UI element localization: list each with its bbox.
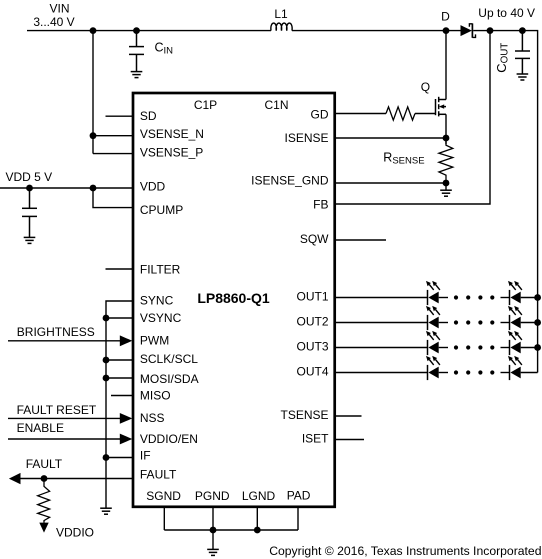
- LED string 2 first: [426, 306, 440, 330]
- wire CPUMP branch: [93, 188, 133, 208]
- svg-text:Up to 40 V: Up to 40 V: [478, 6, 535, 20]
- transistor Q NMOS: [436, 97, 447, 117]
- wire VSYNC: [106, 317, 133, 319]
- svg-text:Q: Q: [421, 80, 430, 94]
- ground RSENSE: [440, 190, 452, 196]
- output arrow FAULT: [9, 473, 21, 484]
- wire ground rail: [164, 529, 298, 531]
- wire OUT2: [336, 322, 428, 324]
- wire VDD rail: [0, 187, 133, 189]
- svg-text:PWM: PWM: [140, 334, 169, 348]
- LED string 2 last: [508, 306, 522, 330]
- junction IF: [103, 454, 110, 461]
- input arrow VDDIO/EN: [120, 434, 133, 445]
- wire gate resistor to gate: [415, 113, 436, 115]
- svg-text:MOSI/SDA: MOSI/SDA: [140, 372, 199, 386]
- wire diode to top right corner: [473, 31, 537, 373]
- wire VSENSE_P: [93, 153, 133, 155]
- svg-text:OUT4: OUT4: [296, 365, 328, 379]
- svg-text:FAULT: FAULT: [26, 457, 63, 471]
- junction ISENSE_GND: [443, 180, 450, 187]
- wire OUT4 mid: [439, 372, 448, 374]
- junction FAULT pull-up: [41, 475, 48, 482]
- svg-text:SQW: SQW: [300, 232, 329, 246]
- svg-text:OUT1: OUT1: [296, 290, 328, 304]
- wire ISENSE: [336, 137, 446, 139]
- svg-text:LP8860-Q1: LP8860-Q1: [197, 290, 270, 306]
- LED string 3 first: [426, 331, 440, 355]
- svg-text:VDD 5 V: VDD 5 V: [6, 170, 53, 184]
- wire FAULT: [20, 478, 133, 480]
- svg-text:GD: GD: [311, 107, 329, 121]
- wire OUT1 mid: [439, 297, 448, 299]
- wire OUT2 right: [501, 322, 510, 324]
- svg-text:OUT3: OUT3: [296, 340, 328, 354]
- svg-text:VSENSE_N: VSENSE_N: [140, 127, 204, 141]
- svg-text:VSENSE_P: VSENSE_P: [140, 146, 203, 160]
- svg-text:D: D: [441, 9, 450, 23]
- ground COUT: [517, 74, 529, 80]
- pin stub TSENSE: [336, 415, 362, 417]
- svg-text:VSYNC: VSYNC: [140, 311, 182, 325]
- svg-text:NSS: NSS: [140, 411, 165, 425]
- wire OUT3 to bus: [521, 347, 538, 349]
- junction VSENSE_N: [90, 132, 97, 139]
- LED string 3 last: [508, 331, 522, 355]
- svg-text:SYNC: SYNC: [140, 294, 174, 308]
- svg-text:MISO: MISO: [140, 388, 171, 402]
- wire OUT3 mid: [439, 347, 448, 349]
- wire PGND down: [212, 507, 214, 530]
- junction VDD / bypass cap: [26, 185, 33, 192]
- svg-text:FAULT RESET: FAULT RESET: [17, 403, 97, 417]
- wire SGND down: [163, 507, 165, 530]
- svg-text:FB: FB: [313, 197, 328, 211]
- svg-text:VDDIO/EN: VDDIO/EN: [140, 432, 198, 446]
- wire LGND down: [256, 507, 258, 530]
- wire OUT3 right: [501, 347, 510, 349]
- LED string 1 first: [426, 281, 440, 305]
- junction VIN / CIN: [133, 27, 140, 34]
- wire SYNC with left bus: [106, 301, 133, 508]
- LED string 1 last: [508, 281, 522, 305]
- diode D schottky: [461, 23, 476, 37]
- resistor RSENSE: [439, 139, 453, 184]
- wire OUT4 right: [501, 372, 510, 374]
- pin stub FILTER: [106, 268, 134, 270]
- junction node D: [443, 27, 450, 34]
- wire VSENSE_N: [93, 135, 133, 137]
- wire OUT2 mid: [439, 322, 448, 324]
- svg-text:OUT2: OUT2: [296, 315, 328, 329]
- junction OUT3 bus: [534, 344, 541, 351]
- junction COUT: [519, 27, 526, 34]
- LED string 4 last: [508, 356, 522, 380]
- wire OUT4: [336, 372, 428, 374]
- junction VIN / VSENSE branch: [90, 27, 97, 34]
- junction MOSI: [103, 375, 110, 382]
- junction ISENSE: [443, 135, 450, 142]
- ellipsis OUT1: [454, 295, 495, 299]
- svg-text:Copyright © 2016, Texas Instru: Copyright © 2016, Texas Instruments Inco…: [269, 544, 541, 558]
- svg-text:VDD: VDD: [140, 180, 166, 194]
- ground system: [207, 549, 219, 555]
- wire L1 to node D: [292, 30, 461, 32]
- wire MOSI/SDA: [106, 377, 133, 379]
- ground VDD cap: [24, 237, 36, 243]
- wire VIN rail left: [27, 30, 271, 32]
- svg-text:ISENSE_GND: ISENSE_GND: [251, 173, 329, 187]
- svg-text:CPUMP: CPUMP: [140, 203, 183, 217]
- capacitor VDD bypass: [22, 188, 37, 237]
- junction OUT1 bus: [534, 294, 541, 301]
- pin stub MISO: [111, 395, 133, 397]
- wire RSENSE to ground: [445, 183, 447, 190]
- resistor Q gate: [386, 107, 415, 120]
- svg-text:FAULT: FAULT: [140, 468, 177, 482]
- junction VDD / CPUMP branch: [90, 185, 97, 192]
- svg-text:RSENSE: RSENSE: [383, 151, 424, 167]
- wire ISENSE_GND: [336, 182, 446, 184]
- svg-text:C1N: C1N: [264, 98, 288, 112]
- svg-text:PAD: PAD: [287, 488, 311, 502]
- wire OUT2 to bus: [521, 322, 538, 324]
- svg-text:SGND: SGND: [146, 489, 181, 503]
- inductor L1: [271, 23, 292, 31]
- LED string 4 first: [426, 356, 440, 380]
- svg-text:ENABLE: ENABLE: [17, 421, 64, 435]
- ground left bus: [100, 508, 112, 514]
- wire OUT3: [336, 347, 428, 349]
- ground CIN: [131, 72, 143, 78]
- IC U1 LP8860-Q1: [133, 93, 335, 507]
- wire OUT4 to bus: [521, 372, 538, 374]
- junction FB feedback: [487, 27, 494, 34]
- junction OUT2 bus: [534, 319, 541, 326]
- ellipsis OUT4: [454, 370, 495, 374]
- wire FB feedback: [336, 31, 490, 204]
- wire PAD down: [297, 507, 299, 530]
- wire NSS: [8, 417, 122, 419]
- svg-text:FILTER: FILTER: [140, 263, 181, 277]
- wire VIN vertical to VSENSE: [92, 31, 94, 154]
- wire rail to ground: [212, 530, 214, 549]
- wire Q source to ISENSE: [445, 114, 447, 144]
- pin stub SQW: [336, 239, 386, 241]
- ellipsis OUT3: [454, 345, 495, 349]
- wire PWM: [8, 340, 122, 342]
- svg-text:ISENSE: ISENSE: [284, 131, 328, 145]
- wire Q drain to node D: [445, 31, 447, 100]
- svg-text:C1P: C1P: [194, 98, 217, 112]
- input arrow NSS: [120, 413, 133, 424]
- ellipsis OUT2: [454, 320, 495, 324]
- junction LGND rail: [254, 527, 261, 534]
- svg-text:TSENSE: TSENSE: [280, 408, 328, 422]
- wire OUT1 to bus: [521, 297, 538, 299]
- svg-text:SCLK/SCL: SCLK/SCL: [140, 352, 198, 366]
- svg-text:3...40 V: 3...40 V: [33, 15, 74, 29]
- svg-text:SD: SD: [140, 109, 157, 123]
- junction VSYNC: [103, 315, 110, 322]
- svg-text:IF: IF: [140, 448, 151, 462]
- wire SCLK/SCL: [106, 359, 133, 361]
- rail arrow VDDIO: [39, 523, 48, 533]
- svg-text:CIN: CIN: [155, 41, 174, 57]
- svg-text:VIN: VIN: [49, 2, 69, 16]
- svg-text:COUT: COUT: [494, 43, 511, 73]
- svg-text:LGND: LGND: [242, 489, 276, 503]
- capacitor COUT: [515, 31, 530, 74]
- pin stub SD: [106, 115, 134, 117]
- svg-text:ISET: ISET: [302, 432, 329, 446]
- wire GD to gate resistor: [336, 113, 386, 115]
- resistor FAULT pull-up: [38, 479, 50, 523]
- svg-text:VDDIO: VDDIO: [56, 526, 94, 540]
- svg-text:PGND: PGND: [195, 489, 230, 503]
- wire IF: [106, 457, 133, 459]
- pin stub ISET: [336, 439, 364, 441]
- input arrow PWM: [120, 335, 133, 346]
- capacitor CIN: [129, 31, 144, 72]
- svg-text:BRIGHTNESS: BRIGHTNESS: [17, 325, 95, 339]
- wire OUT1: [336, 297, 428, 299]
- wire OUT1 right: [501, 297, 510, 299]
- wire VDDIO/EN: [8, 438, 122, 440]
- svg-text:L1: L1: [274, 7, 288, 21]
- junction PGND rail: [210, 527, 217, 534]
- junction SCLK: [103, 357, 110, 364]
